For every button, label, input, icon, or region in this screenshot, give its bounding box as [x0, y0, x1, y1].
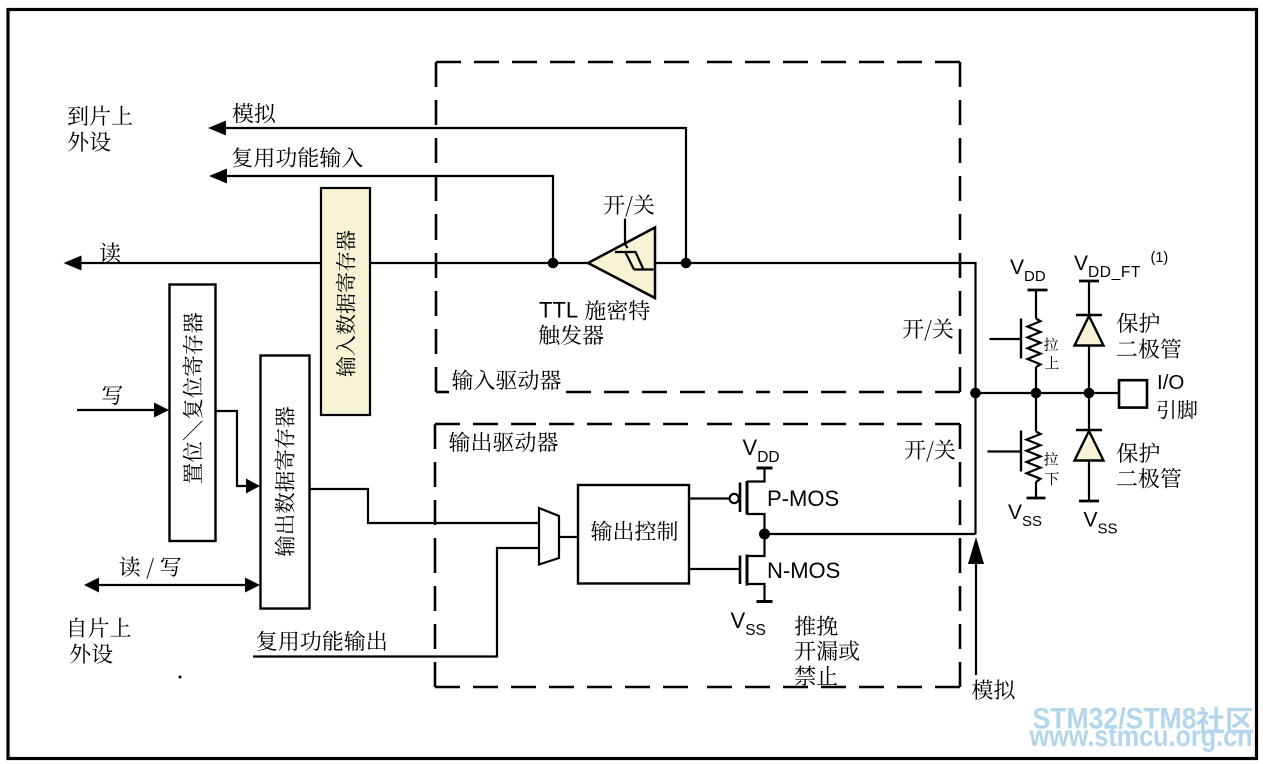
schmitt hysteresis symbol — [615, 252, 654, 270]
diode D2: protection diode to VSS — [1075, 393, 1104, 501]
label: alternate function input — [233, 147, 363, 167]
svg-text:www.stmcu.org.cn: www.stmcu.org.cn — [1029, 720, 1253, 753]
power label: VDD (pmos) — [743, 435, 780, 466]
label: write — [103, 386, 123, 405]
label: output control text — [591, 521, 677, 541]
wire: MOS output to bus — [765, 533, 976, 535]
label: protection line1 (bottom) — [1117, 443, 1160, 463]
stray dot artifact — [179, 676, 182, 679]
wire: alternate function output to mux lower input — [253, 548, 539, 657]
power label: VSS (pull-down) — [1008, 501, 1042, 530]
label: analog (bottom) — [972, 680, 1015, 700]
wire: schmitt input line to right bus corner and bus down to I/O node — [655, 263, 976, 393]
node: junction dot diodes / I/O line — [1084, 388, 1095, 399]
label: protection line1 (top) — [1117, 313, 1160, 333]
register box: output data register 输出数据寄存器 — [261, 356, 310, 609]
label: protection diode line2 (top) — [1117, 339, 1181, 359]
label: pull-down cjk la — [1044, 452, 1058, 466]
power label: VDD_FT with note (1) — [1074, 250, 1168, 281]
wire: output data register to mux upper input — [310, 489, 540, 523]
label: I/O — [1157, 371, 1184, 394]
label: input driver — [452, 370, 561, 391]
node: junction dot pull-up/down / I/O line — [1031, 388, 1042, 399]
svg-text:TTL: TTL — [539, 298, 578, 323]
label: push-pull — [795, 616, 838, 636]
register label: set/reset register — [182, 313, 202, 484]
power label: VSS (bottom diode) — [1084, 509, 1118, 538]
label: schmitt line1 cjk — [585, 300, 650, 321]
label: pull-up cjk la — [1044, 338, 1058, 352]
node: junction dot bus / I/O line — [970, 388, 981, 399]
label: alternate function output — [257, 631, 386, 651]
label: I/O pin cjk — [1158, 400, 1198, 419]
watermark: www.stmcu.org.cn — [1029, 720, 1253, 753]
I/O pin pad square — [1119, 380, 1147, 407]
diode D1: protection diode to VDD_FT — [1075, 281, 1104, 393]
label: from on-chip peripheral line1 — [70, 618, 131, 638]
register label: input data register — [336, 231, 356, 377]
label: TTL — [539, 298, 578, 323]
wire: write input with arrow into set/reset register — [77, 403, 169, 418]
label: from on-chip peripheral line2 — [70, 644, 113, 664]
label: analog (top) — [233, 103, 276, 123]
label: output driver — [449, 432, 558, 453]
label: to on-chip peripheral line2 — [68, 132, 111, 152]
label: disabled — [795, 666, 837, 686]
label: pull-up cjk shang — [1045, 356, 1059, 369]
svg-text:I/O: I/O — [1157, 371, 1184, 394]
label: pull-down cjk xia — [1045, 472, 1059, 485]
resistor: pull-up with switch — [990, 290, 1048, 393]
node: junction dot at schmitt output / AF input — [548, 258, 559, 269]
svg-text:(1): (1) — [1151, 250, 1169, 266]
label: read/write — [120, 557, 181, 579]
watermark: STM32/STM8 community — [1033, 703, 1197, 736]
label: open-drain or — [795, 641, 859, 661]
schmitt on/off pointer line — [625, 219, 628, 249]
register label: output data register — [274, 407, 294, 556]
transistor Q1: P-MOS — [730, 468, 773, 534]
wire: I/O pin line — [976, 392, 1120, 394]
svg-text:P-MOS: P-MOS — [767, 486, 839, 511]
wire: read line from schmitt output to left arrow — [64, 256, 589, 271]
label: read — [100, 243, 120, 263]
svg-text:N-MOS: N-MOS — [767, 558, 840, 583]
label: on/off (schmitt) — [604, 195, 654, 217]
mux (trapezoid selector) — [539, 508, 559, 565]
power label: VDD (pull-up) — [1010, 256, 1046, 285]
wire: output control to P-MOS gate — [689, 497, 730, 499]
register box: input data register 输入数据寄存器 (yellow) — [321, 188, 370, 415]
power label: VSS (nmos) — [731, 608, 766, 639]
wire: mux output to output control — [559, 536, 578, 538]
label: protection diode line2 (bottom) — [1117, 468, 1181, 488]
wire: read/write double arrow — [84, 578, 260, 593]
node: junction dot at schmitt input / analog — [681, 258, 692, 269]
register box: set/reset register 置位/复位寄存器 — [170, 285, 216, 542]
wire: output control to N-MOS gate — [689, 568, 740, 570]
wire: alternate function input with arrow — [209, 169, 553, 264]
label: schmitt line2 — [539, 325, 604, 345]
label: on/off (pull-down) — [905, 440, 955, 462]
resistor: pull-down with switch — [988, 393, 1046, 498]
wire: set/reset register to output data register with arrow — [216, 411, 261, 494]
output driver dashed box 输出驱动器 — [435, 424, 960, 687]
label: N-MOS — [767, 558, 840, 583]
transistor Q2: N-MOS — [740, 534, 773, 602]
watermark cjk: community — [1197, 707, 1253, 734]
label: to on-chip peripheral line1 — [68, 106, 132, 126]
input driver dashed box 输入驱动器 — [436, 62, 960, 392]
node: junction dot at MOS output — [759, 529, 770, 540]
label: P-MOS — [767, 486, 839, 511]
wire: analog output to peripherals (top) with arrow — [208, 121, 686, 264]
op-amp U1: TTL schmitt trigger triangle — [588, 228, 655, 299]
box: output control 输出控制 — [578, 485, 689, 584]
wire: analog line up arrow to mos output join — [968, 537, 984, 675]
label: on/off (pull-up) — [903, 319, 953, 341]
wire: bus from I/O node down to mos output join — [974, 393, 976, 534]
